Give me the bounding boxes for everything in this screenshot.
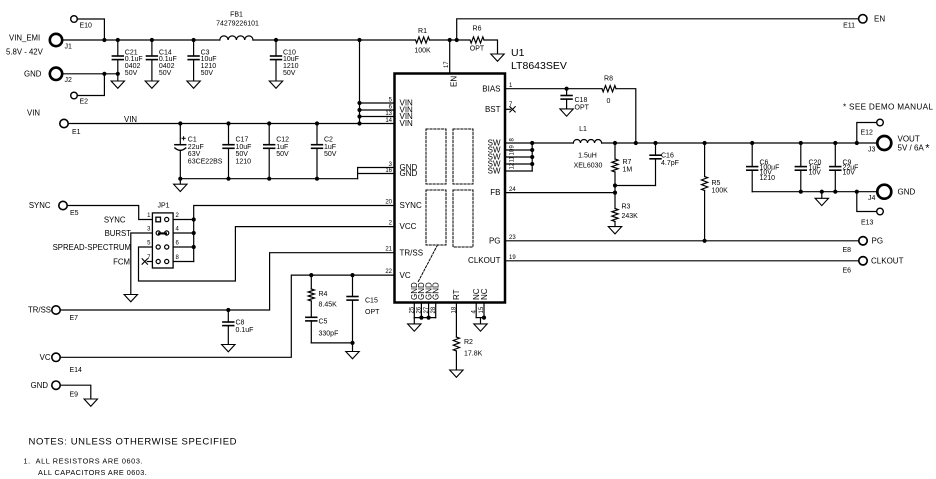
wire E9 to ground	[60, 385, 91, 399]
JP1 pin number 6	[176, 241, 180, 247]
svg-text:8.45K: 8.45K	[319, 302, 338, 309]
ground NC pins	[474, 318, 487, 332]
wire JP1 right stubs	[173, 220, 194, 262]
capacitor C18	[561, 89, 589, 112]
svg-text:EN: EN	[874, 15, 885, 24]
JP1 pin number 1	[147, 213, 151, 219]
svg-text:R7: R7	[623, 159, 632, 166]
svg-text:EN: EN	[450, 76, 459, 87]
wire VIN pin stubs	[360, 103, 395, 124]
wire EN pin 17	[449, 40, 451, 74]
capacitor C14	[147, 40, 177, 81]
net label VIN	[124, 115, 137, 124]
junction C2/VIN	[315, 121, 319, 125]
svg-text:E12: E12	[861, 130, 874, 137]
U1 pin name BST	[485, 105, 501, 114]
svg-text:CLKOUT: CLKOUT	[468, 256, 501, 265]
svg-text:50V: 50V	[324, 151, 337, 158]
svg-text:E2: E2	[80, 99, 89, 106]
U1 pin name PG	[489, 236, 501, 245]
svg-text:4.7pF: 4.7pF	[661, 160, 679, 167]
pin 28	[431, 306, 437, 313]
svg-text:10: 10	[510, 148, 516, 155]
svg-text:OPT: OPT	[575, 104, 590, 111]
capacitor C2	[312, 124, 337, 179]
JP1 shunt jumper pins 3-4	[159, 232, 166, 234]
junction C20/VOUT	[799, 141, 803, 145]
pin 19	[509, 255, 516, 261]
pin 13	[385, 111, 392, 117]
svg-text:VC: VC	[400, 271, 411, 280]
svg-text:C8: C8	[236, 320, 245, 327]
svg-text:J1: J1	[65, 44, 73, 51]
svg-text:R6: R6	[473, 26, 482, 33]
wire FB1 to R1	[253, 39, 416, 41]
pin 6	[389, 104, 393, 110]
svg-text:VIN: VIN	[124, 115, 137, 124]
junction C21/J2 gnd	[116, 72, 120, 76]
junction VIN pin 13	[357, 114, 361, 118]
svg-text:20: 20	[385, 199, 392, 205]
capacitor C21	[112, 40, 142, 81]
ground R2	[450, 370, 463, 377]
svg-text:24: 24	[509, 187, 516, 193]
svg-text:OPT: OPT	[470, 46, 485, 53]
wire to E12	[857, 123, 877, 144]
svg-text:74279226101: 74279226101	[216, 21, 259, 28]
svg-text:VIN: VIN	[27, 109, 40, 118]
svg-text:22: 22	[385, 269, 392, 275]
junction C3/rail	[192, 38, 196, 42]
JP1 pin 7 no-connect	[142, 259, 152, 264]
svg-text:E6: E6	[843, 268, 852, 275]
junction C15/VC	[350, 273, 354, 277]
svg-text:1uF: 1uF	[324, 144, 336, 151]
svg-text:E7: E7	[70, 315, 79, 322]
JP1 pin number 2	[176, 213, 180, 219]
svg-text:5.8V - 42V: 5.8V - 42V	[6, 48, 44, 57]
svg-text:1210: 1210	[760, 175, 776, 182]
wire to E13	[857, 192, 877, 212]
svg-text:243K: 243K	[622, 213, 639, 220]
svg-text:TR/SS: TR/SS	[28, 306, 51, 315]
wire SW to L1	[532, 142, 573, 144]
svg-text:BIAS: BIAS	[482, 84, 500, 93]
svg-text:100K: 100K	[414, 48, 431, 55]
U1 pin name BIAS	[482, 84, 500, 93]
svg-text:NOTES: UNLESS OTHERWISE SPECI: NOTES: UNLESS OTHERWISE SPECIFIED	[29, 437, 238, 448]
ground input caps	[174, 179, 187, 192]
svg-text:GND: GND	[432, 282, 441, 300]
svg-text:PG: PG	[489, 236, 501, 245]
wire output ground rail	[752, 191, 877, 193]
junction C17/VIN	[226, 121, 230, 125]
resistor R3	[612, 193, 638, 227]
wire J2 ground rail	[62, 73, 118, 75]
label SYNC row	[104, 216, 126, 225]
svg-text:J3: J3	[868, 147, 876, 154]
JP1 pin number 8	[176, 255, 180, 261]
U1 pin name VCC	[400, 222, 417, 231]
pin 4	[471, 310, 477, 314]
svg-text:FB: FB	[490, 188, 500, 197]
capacitor C10	[271, 40, 299, 81]
junction gnd stem	[820, 190, 824, 194]
ground output caps	[815, 192, 828, 206]
junction SW 10	[530, 155, 534, 159]
wire L1 to VOUT rail	[602, 142, 878, 144]
note 1 resistors	[24, 457, 144, 466]
svg-text:E8: E8	[843, 247, 852, 254]
svg-text:21: 21	[385, 247, 392, 253]
junction C15 bottom	[350, 341, 354, 345]
U1 pin name VIN x4	[400, 99, 414, 129]
svg-text:0.1uF: 0.1uF	[236, 327, 254, 334]
svg-text:R2: R2	[464, 339, 473, 346]
pin 5	[389, 97, 393, 103]
junction C9/VOUT	[833, 141, 837, 145]
U1 internal dashed block A	[426, 129, 446, 184]
capacitor C6	[747, 143, 780, 192]
junction FB/R7/R3	[613, 191, 617, 195]
JP1 pin 3	[156, 231, 160, 235]
U1 exposed pad dashed link	[418, 245, 438, 282]
svg-text:JP1: JP1	[158, 202, 170, 209]
wire BIAS to R8	[505, 88, 602, 90]
JP1 pin number 7	[147, 255, 151, 261]
svg-text:330pF: 330pF	[319, 331, 339, 338]
note star see demo manual	[843, 103, 933, 112]
pin 7 BST no-connect	[505, 102, 515, 112]
svg-text:FCM: FCM	[113, 257, 130, 266]
pin 21	[385, 247, 392, 253]
label SPREAD-SPECTRUM row	[53, 243, 131, 252]
pin 20	[385, 199, 392, 205]
junction E11 riser	[455, 38, 459, 42]
junction C8/TRSS	[226, 308, 230, 312]
svg-text:BURST: BURST	[105, 229, 132, 238]
junction C12/VIN	[267, 121, 271, 125]
resistor R5	[701, 143, 728, 241]
junction VIN pin 5	[357, 101, 361, 105]
junction C16 bottom	[613, 183, 617, 187]
svg-text:1.5uH: 1.5uH	[578, 152, 597, 159]
junction SW 11	[530, 162, 534, 166]
wire CLKOUT pin 19	[505, 260, 859, 262]
capacitor C9	[830, 143, 859, 192]
svg-text:VOUT: VOUT	[898, 135, 920, 144]
wire gnd rail to IC GND pins	[358, 168, 395, 179]
JP1 pin 2	[165, 217, 169, 221]
jack J4 GND	[868, 185, 916, 202]
pin 23	[509, 235, 516, 241]
junction JP1 pin 2	[192, 217, 196, 221]
resistor R8	[602, 76, 616, 106]
svg-text:E11: E11	[843, 23, 855, 30]
svg-text:GND: GND	[24, 70, 42, 79]
capacitor C12	[264, 124, 289, 179]
ground R6	[491, 54, 504, 61]
ground R4/C5/C15	[346, 343, 359, 359]
JP1 pin number 5	[147, 241, 151, 247]
junction E10/rail	[102, 38, 106, 42]
svg-text:16: 16	[385, 168, 392, 174]
junction SW 9	[530, 148, 534, 152]
svg-text:50V: 50V	[283, 70, 296, 77]
svg-text:VCC: VCC	[400, 222, 417, 231]
pin 12	[510, 162, 516, 169]
junction EN node	[448, 38, 452, 42]
junction C17/gnd rail	[226, 177, 230, 181]
junction C20/gnd	[799, 190, 803, 194]
U1 internal dashed block C	[426, 190, 446, 245]
junction C14/rail	[150, 38, 154, 42]
pin 2 VCC	[389, 220, 393, 226]
ground IC GND pins	[408, 318, 421, 332]
junction C2/gnd rail	[315, 177, 319, 181]
svg-text:22uF: 22uF	[188, 144, 204, 151]
svg-text:25: 25	[409, 306, 415, 313]
svg-text:R8: R8	[604, 76, 613, 83]
junction E2/gnd	[102, 72, 106, 76]
pin 8	[510, 138, 516, 142]
terminal E8 PG	[843, 236, 884, 254]
svg-text:26: 26	[417, 306, 423, 313]
capacitor C8	[223, 310, 254, 345]
svg-text:5V / 6A: 5V / 6A	[898, 144, 925, 153]
junction R5/PG	[703, 239, 707, 243]
svg-text:R5: R5	[712, 180, 721, 187]
terminal E13	[861, 208, 883, 226]
junction JP1 pin 6	[192, 245, 196, 249]
wire R8 to SW node	[616, 89, 636, 143]
svg-text:ALL CAPACITORS ARE 0603.: ALL CAPACITORS ARE 0603.	[38, 468, 147, 477]
U1 pin name EN rotated	[450, 76, 459, 87]
ground C10	[269, 81, 282, 88]
U1 pin name SYNC	[400, 201, 422, 210]
U1 internal dashed block D	[453, 190, 473, 247]
svg-text:*: *	[925, 143, 930, 155]
terminal E10	[71, 16, 92, 30]
resistor R1	[414, 28, 431, 55]
svg-text:VIN_EMI: VIN_EMI	[9, 34, 40, 43]
junction E12 tap	[855, 141, 859, 145]
resistor R4	[308, 275, 337, 317]
ferrite bead FB1	[216, 12, 259, 41]
svg-text:C16: C16	[661, 152, 674, 159]
svg-text:NC: NC	[480, 288, 489, 300]
junction VIN pin 6	[357, 108, 361, 112]
svg-text:J2: J2	[65, 77, 73, 84]
connector JP1	[152, 202, 173, 268]
svg-text:SYNC: SYNC	[400, 201, 422, 210]
pin 25	[409, 306, 415, 313]
JP1 pin 5	[156, 245, 160, 249]
svg-text:17.8K: 17.8K	[464, 351, 483, 358]
capacitor C17	[223, 124, 251, 179]
wire R1 to EN node	[430, 39, 471, 41]
svg-text:C12: C12	[276, 137, 289, 144]
junction C9/gnd	[833, 190, 837, 194]
junction GND pin 27	[427, 316, 431, 320]
svg-text:18: 18	[452, 306, 458, 313]
junction NC pins	[482, 316, 486, 320]
wire TR/SS net	[60, 253, 394, 310]
terminal E11 EN	[843, 15, 885, 30]
svg-text:R4: R4	[319, 291, 328, 298]
svg-text:12: 12	[510, 162, 516, 169]
resistor R7	[612, 143, 632, 193]
notes heading	[29, 437, 238, 448]
U1 pin name GND x2	[400, 163, 418, 178]
JP1 pin 6	[165, 245, 169, 249]
junction C18/BIAS	[565, 87, 569, 91]
svg-text:XEL6030: XEL6030	[574, 162, 603, 169]
terminal E5 SYNC	[29, 201, 79, 217]
ground E9	[84, 399, 97, 406]
svg-text:10V: 10V	[809, 170, 822, 177]
svg-text:50V: 50V	[159, 70, 172, 77]
wire E5 to JP1 pin 1	[67, 206, 152, 220]
ground C14	[145, 81, 158, 88]
svg-text:17: 17	[444, 61, 450, 68]
U1 pin name TR/SS	[400, 248, 424, 257]
wire FB pin 24	[505, 192, 615, 194]
junction VIN bus/rail	[357, 38, 361, 42]
JP1 pin 1 square	[156, 217, 161, 222]
junction R4/VC	[309, 273, 313, 277]
svg-text:C5: C5	[319, 319, 328, 326]
junction R7/VOUT	[613, 141, 617, 145]
junction C10/rail	[274, 38, 278, 42]
wire SW bus	[531, 143, 533, 171]
svg-text:PG: PG	[872, 236, 884, 245]
wire GND pin stubs bottom	[414, 303, 435, 318]
svg-text:C17: C17	[236, 137, 249, 144]
svg-text:1M: 1M	[623, 166, 633, 173]
terminal E12	[861, 119, 884, 136]
svg-text:15: 15	[479, 306, 485, 313]
svg-text:19: 19	[509, 255, 516, 261]
svg-text:C1: C1	[188, 137, 197, 144]
terminal E2	[71, 92, 88, 105]
wire SW pin stubs	[505, 143, 532, 171]
svg-text:23: 23	[509, 235, 516, 241]
capacitor C1 polarized	[175, 124, 223, 179]
wire VC net	[60, 275, 394, 357]
op-amp U1 LT8643SEV body	[395, 47, 567, 303]
pin 24	[509, 187, 516, 193]
pin 27	[424, 306, 430, 313]
junction SW 8	[530, 141, 534, 145]
junction R5/VOUT	[703, 141, 707, 145]
JP1 pin 8	[165, 259, 169, 263]
junction E13 tap	[855, 190, 859, 194]
ground C18	[560, 109, 573, 116]
svg-text:GND: GND	[31, 381, 49, 390]
pin 15	[479, 306, 485, 313]
U1 internal dashed block B	[453, 129, 473, 184]
capacitor C3	[188, 40, 216, 81]
svg-text:FB1: FB1	[230, 12, 243, 19]
wire C5 to C15 ground	[311, 342, 352, 344]
pin 3 GND	[389, 162, 393, 168]
svg-text:1. ALL RESISTORS ARE 0603.: 1. ALL RESISTORS ARE 0603.	[24, 457, 144, 466]
wire NC pin stubs	[476, 303, 484, 318]
svg-text:E5: E5	[70, 210, 79, 217]
svg-text:SW: SW	[488, 167, 501, 176]
pin 10	[510, 148, 516, 155]
svg-text:C18: C18	[575, 97, 588, 104]
svg-text:50V: 50V	[201, 70, 214, 77]
pin 11	[510, 156, 516, 163]
wire VIN bus	[359, 40, 361, 124]
svg-text:50V: 50V	[236, 151, 249, 158]
svg-text:27: 27	[424, 306, 430, 313]
capacitor C5	[306, 317, 338, 343]
pin 9	[510, 145, 516, 149]
svg-text:BST: BST	[485, 105, 501, 114]
svg-text:E1: E1	[72, 129, 81, 136]
JP1 pin number 3	[147, 227, 151, 233]
wire JP1 pin 3 to ground	[131, 233, 153, 295]
svg-text:LT8643SEV: LT8643SEV	[511, 60, 567, 72]
svg-text:0: 0	[607, 98, 611, 105]
JP1 pin number 4	[176, 227, 180, 233]
terminal E14 VC	[40, 353, 82, 374]
wire E10 to VIN_EMI rail	[77, 19, 104, 40]
U1 pin name NC x2 rotated	[472, 288, 489, 300]
terminal E1 VIN	[27, 109, 81, 137]
svg-text:E9: E9	[70, 392, 79, 399]
junction C12/gnd rail	[267, 177, 271, 181]
junction C16/VOUT	[653, 141, 657, 145]
inductor L1	[573, 126, 602, 169]
label FCM row	[113, 257, 130, 266]
wire VIN_EMI rail	[62, 39, 220, 41]
svg-text:1210: 1210	[236, 158, 252, 165]
svg-text:OPT: OPT	[365, 309, 380, 316]
svg-text:R3: R3	[622, 203, 631, 210]
jack J2 GND input	[24, 68, 72, 84]
ground JP1 pin 3	[124, 295, 137, 302]
svg-text:VC: VC	[40, 353, 51, 362]
svg-text:R1: R1	[418, 28, 427, 35]
terminal E9 GND	[31, 381, 78, 399]
svg-text:CLKOUT: CLKOUT	[871, 256, 904, 265]
svg-text:50V: 50V	[276, 151, 289, 158]
ground C21	[111, 81, 124, 88]
svg-text:63CE22BS: 63CE22BS	[188, 158, 223, 165]
pin 14	[385, 118, 392, 124]
terminal E6 CLKOUT	[843, 256, 904, 274]
wire EN to E11	[457, 19, 859, 40]
JP1 pin 7	[156, 259, 160, 263]
ground C8	[222, 345, 235, 352]
ground R3	[608, 227, 621, 234]
capacitor C15	[347, 275, 380, 343]
svg-text:L1: L1	[579, 126, 587, 133]
U1 pin name SW x5	[488, 139, 501, 176]
pin 22	[385, 269, 392, 275]
junction C1/gnd rail	[178, 177, 182, 181]
svg-text:E13: E13	[861, 220, 874, 227]
svg-text:100K: 100K	[712, 188, 729, 195]
pin 17	[444, 61, 450, 68]
wire VIN rail	[68, 123, 359, 125]
wire E2 to ground rail	[77, 74, 104, 96]
junction GND pin 26	[419, 316, 423, 320]
